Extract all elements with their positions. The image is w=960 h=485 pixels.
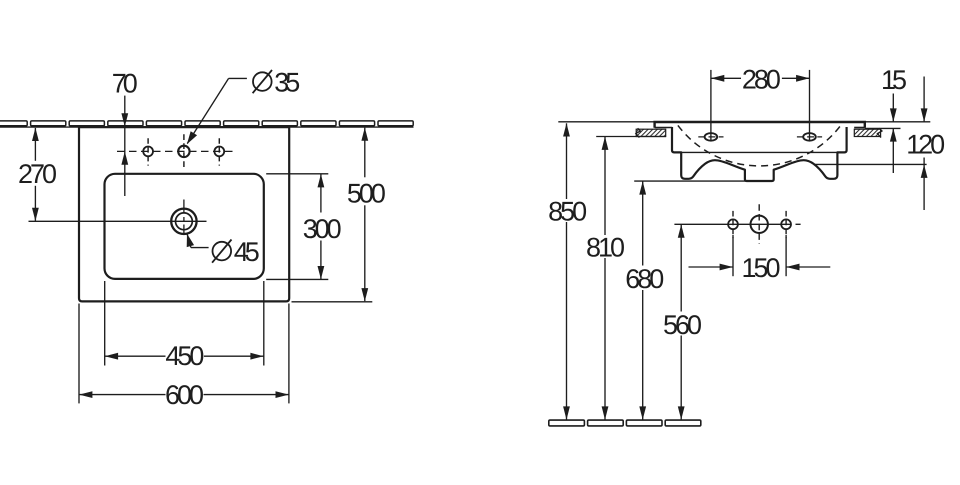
tap-hole centerline <box>117 150 235 152</box>
mounting holes centerline <box>674 223 800 225</box>
tap hole right <box>214 138 224 165</box>
extension line underside <box>634 180 746 182</box>
extension line basin top <box>558 121 654 123</box>
wall anchor hatch left <box>636 128 666 137</box>
svg-text:450: 450 <box>165 341 204 371</box>
svg-text:270: 270 <box>18 159 57 189</box>
dimension 280 <box>711 64 809 94</box>
drain centerline vertical <box>183 200 185 234</box>
washbasin outer rim <box>79 127 289 301</box>
dimension 600 <box>79 304 289 411</box>
svg-text:680: 680 <box>625 264 664 294</box>
inner basin rim <box>105 174 264 279</box>
dimension 680 <box>625 181 664 419</box>
svg-text:810: 810 <box>586 233 625 263</box>
bowl contour (hidden) <box>678 125 841 166</box>
basin rear edge <box>678 151 841 153</box>
faucet hole (Ø35) <box>178 134 189 168</box>
dimension 70 <box>112 68 138 196</box>
dimension 850 <box>548 123 587 420</box>
svg-text:560: 560 <box>663 310 702 340</box>
svg-text:150: 150 <box>742 253 781 283</box>
dimension 300 <box>266 174 342 280</box>
dimension 560 <box>663 225 702 420</box>
dimension 150 <box>689 235 831 283</box>
svg-text:15: 15 <box>881 65 907 95</box>
svg-text:850: 850 <box>548 196 587 226</box>
fixation hole center <box>751 204 768 243</box>
svg-text:70: 70 <box>112 68 138 98</box>
drain centerline horizontal <box>29 220 207 222</box>
tap hole front right <box>797 70 822 141</box>
extension line ledge right <box>865 127 901 129</box>
svg-text:120: 120 <box>906 129 945 159</box>
wall (top view, tiled band) <box>0 121 413 126</box>
leader Ø45 <box>183 233 259 267</box>
basin body outline <box>672 127 847 181</box>
mounting hole left <box>728 211 738 238</box>
extension line top right <box>865 121 931 123</box>
tap hole front left <box>698 70 723 141</box>
svg-text:600: 600 <box>165 380 204 410</box>
wall line left <box>596 136 666 138</box>
basin top slab <box>655 122 865 128</box>
dimension 15 <box>881 65 907 173</box>
wall line <box>0 126 414 128</box>
svg-text:300: 300 <box>303 214 342 244</box>
extension line bowl bottom <box>815 163 927 165</box>
dimension 450 <box>105 281 264 371</box>
svg-text:45: 45 <box>234 237 260 267</box>
svg-text:500: 500 <box>347 179 386 209</box>
wall anchor hatch right <box>854 128 882 137</box>
dimension 120 <box>906 77 945 211</box>
dimension 810 <box>586 137 625 420</box>
floor (tiled) <box>549 420 701 426</box>
dimension 500 <box>292 128 386 302</box>
tap hole left <box>143 138 153 165</box>
drain (Ø45) <box>171 209 196 234</box>
svg-text:280: 280 <box>742 64 781 94</box>
mounting hole right <box>781 211 791 238</box>
leader Ø35 <box>184 68 301 147</box>
svg-text:35: 35 <box>274 68 300 98</box>
dimension 270 <box>18 128 57 221</box>
